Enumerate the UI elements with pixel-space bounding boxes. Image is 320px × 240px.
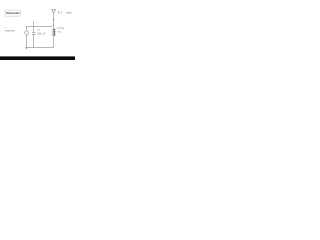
- wire: antenna lead down: [53, 13, 55, 29]
- inductor L1 dark bar: [53, 29, 55, 37]
- capacitor C1 lower wire: [33, 35, 35, 48]
- polarity tick right of circle: [27, 35, 29, 37]
- inductor L1 left winding edge: [51, 29, 53, 36]
- svg-text:365 pF: 365 pF: [37, 32, 46, 35]
- tilde inside circle: [26, 32, 28, 35]
- tap lever (switch arm to coil lead): [51, 25, 53, 27]
- inductor L1 lower lead: [53, 36, 55, 47]
- svg-text:rod: rod: [57, 31, 61, 34]
- background: [0, 0, 75, 60]
- junction dot left: [26, 47, 28, 49]
- svg-text:earphone: earphone: [5, 28, 16, 32]
- wire: bottom bus: [27, 47, 54, 49]
- capacitor C1 plates: [32, 32, 35, 34]
- svg-text:wire: wire: [66, 11, 72, 15]
- svg-text:Ferrite: Ferrite: [57, 27, 65, 30]
- svg-text:ft.: ft.: [61, 12, 63, 15]
- stub tip dot: [33, 22, 34, 23]
- wire: left branch upper: [26, 26, 28, 31]
- stub terminal above top wire: [33, 22, 35, 26]
- wire: top horizontal: [27, 26, 52, 28]
- left text: earphone label: [5, 27, 6, 30]
- capacitor C1 branch upper wire: [33, 27, 35, 33]
- svg-text:Schematic: Schematic: [6, 11, 20, 15]
- label box (rounded UI tag, top-left): [5, 10, 21, 16]
- svg-text:6: 6: [58, 11, 60, 15]
- wire: left branch lower: [26, 35, 28, 48]
- antenna ANT1: [52, 10, 56, 13]
- connector blob on lead: [53, 19, 54, 21]
- inductor L1 ticks: [53, 29, 56, 34]
- black footer strip: [0, 56, 75, 60]
- earphone G1 (circle): [25, 31, 29, 35]
